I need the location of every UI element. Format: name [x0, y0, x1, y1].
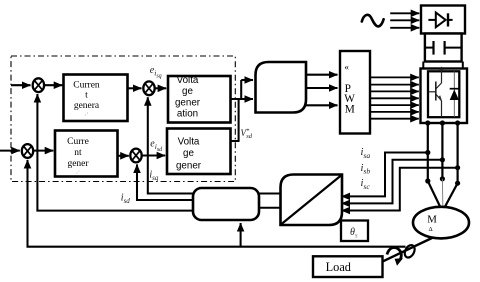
svg-text:ge: ge [182, 86, 193, 97]
wires AC supply to rectifier [390, 13, 419, 27]
inverter output terminal dots [425, 120, 430, 125]
svg-text:Δ: Δ [429, 226, 433, 233]
wire J4 to voltage generation block (d axis) [142, 154, 165, 156]
phase bend dots [425, 178, 430, 183]
wire speed/angle feedback long line [28, 160, 406, 247]
phase B lead to motor (thin) [441, 179, 444, 216]
summing junction J1 [33, 78, 44, 92]
diagonal line [282, 176, 342, 225]
freewheel diode [453, 71, 455, 117]
svg-text:.·: .· [84, 110, 88, 118]
svg-text:Volta: Volta [177, 75, 199, 86]
phase C line down [457, 123, 459, 183]
phase A lead to motor [428, 181, 441, 209]
summing junction J2 [143, 81, 154, 95]
phase A line down [427, 123, 429, 181]
wire d-axis reference input to J3 [0, 150, 20, 152]
motor M [413, 207, 469, 239]
current sensor tap B [440, 157, 445, 162]
block: abc to alpha-beta transform (diagonal) [281, 175, 343, 226]
block: rectifier [421, 6, 465, 34]
svg-text:M: M [427, 214, 437, 226]
svg-text:t: t [85, 91, 88, 101]
phase B line down [441, 123, 443, 179]
shaft position sensor [403, 243, 417, 259]
wire J2 to voltage generation block [155, 87, 166, 89]
wire J3 to current generation block 2 [34, 150, 54, 152]
block: Load [313, 256, 383, 277]
svg-text:gener: gener [175, 97, 201, 108]
svg-text:Curren: Curren [73, 80, 100, 90]
svg-text:Volta: Volta [178, 136, 200, 147]
summing junction J3 [22, 144, 33, 158]
wire speed reference input to node J1 [11, 84, 31, 86]
block: dq to abc transform (rounded) [256, 62, 307, 113]
diode symbol [428, 19, 436, 21]
wires PWM gate signals to inverter [371, 77, 419, 118]
capacitor symbol [426, 47, 434, 49]
wire transform to PWM (phase b) [306, 87, 338, 89]
wire J1 to current generation block 1 [45, 84, 63, 86]
wire i_sq feedback to J2 [148, 97, 193, 193]
wire DC bus right [462, 62, 464, 69]
wire diagonal block to rounded block upper [259, 193, 281, 195]
wire transform to PWM (phase a) [306, 74, 338, 76]
wire vsq* riser [240, 80, 242, 100]
block: Voltage generation (d axis) [167, 129, 231, 175]
block: Current generation (q axis) [64, 75, 128, 122]
motor shaft [383, 238, 433, 262]
block: DC link capacitor [425, 34, 462, 62]
rotation arrow [387, 247, 401, 259]
current sensor tap A [425, 150, 430, 155]
dash-dot controller boundary box [11, 56, 235, 182]
wire block1 to J2 [128, 87, 142, 89]
wire into transform upper input [241, 79, 253, 81]
wire vsd* from voltage block d [231, 140, 240, 142]
block: PWM modulator [340, 51, 370, 134]
svg-text:Load: Load [326, 260, 351, 274]
block: alpha-beta to dq transform (rounded) [193, 188, 259, 220]
wire diagonal block to rounded block lower [259, 207, 281, 209]
wire block3 to J4 [118, 155, 129, 157]
block: theta_s [341, 221, 368, 242]
AC source sine symbol [362, 15, 384, 27]
current sensor tap C [455, 165, 460, 170]
IGBT symbol [429, 67, 444, 117]
wire outer feedback to J1 [37, 94, 193, 211]
wire DC bus left [422, 62, 424, 69]
svg-text:M: M [345, 103, 355, 115]
phase C lead to motor [444, 183, 458, 208]
wire vsq* from voltage block q to dq-abc transform [231, 98, 254, 100]
wire vsd* riser [238, 99, 240, 141]
wire theta to rounded transform block [240, 223, 242, 247]
block: Voltage generation (q axis) [168, 75, 231, 122]
wire i_sd feedback to J4 [137, 164, 193, 200]
svg-text:ation: ation [177, 109, 198, 120]
svg-text:ge: ge [183, 148, 194, 159]
block: Current generation (d axis) [55, 131, 118, 177]
svg-text:.·: .· [76, 168, 80, 176]
svg-text:nt: nt [74, 148, 82, 158]
block: inverter [421, 67, 468, 123]
svg-text:gener: gener [176, 160, 202, 171]
wire transform to PWM (phase c) [306, 104, 338, 106]
summing junction J4 [130, 149, 141, 163]
svg-text:Curre: Curre [67, 137, 89, 147]
svg-text:«: « [344, 62, 349, 72]
